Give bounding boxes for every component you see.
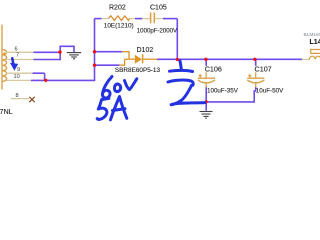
svg-text:C105: C105 — [150, 4, 167, 11]
svg-text:10uF-50V: 10uF-50V — [256, 87, 284, 94]
svg-text:R202: R202 — [109, 5, 126, 12]
svg-text:6: 6 — [15, 46, 18, 52]
svg-text:D102: D102 — [137, 47, 154, 54]
svg-text:7: 7 — [16, 53, 19, 59]
svg-text:C107: C107 — [255, 65, 272, 74]
svg-text:C106: C106 — [205, 65, 222, 74]
svg-text:L14: L14 — [310, 39, 320, 46]
svg-text:9: 9 — [17, 67, 20, 73]
svg-text:8: 8 — [16, 93, 19, 99]
svg-text:100uF-35V: 100uF-35V — [207, 87, 239, 94]
svg-text:47NL: 47NL — [0, 107, 13, 116]
svg-text:SBR8E60P5-13: SBR8E60P5-13 — [115, 67, 161, 74]
svg-text:1000pF-2000V: 1000pF-2000V — [137, 27, 178, 34]
svg-text:10: 10 — [14, 74, 20, 80]
svg-text:10E(1210): 10E(1210) — [104, 22, 134, 29]
svg-text:BLM18SG121: BLM18SG121 — [304, 32, 320, 38]
